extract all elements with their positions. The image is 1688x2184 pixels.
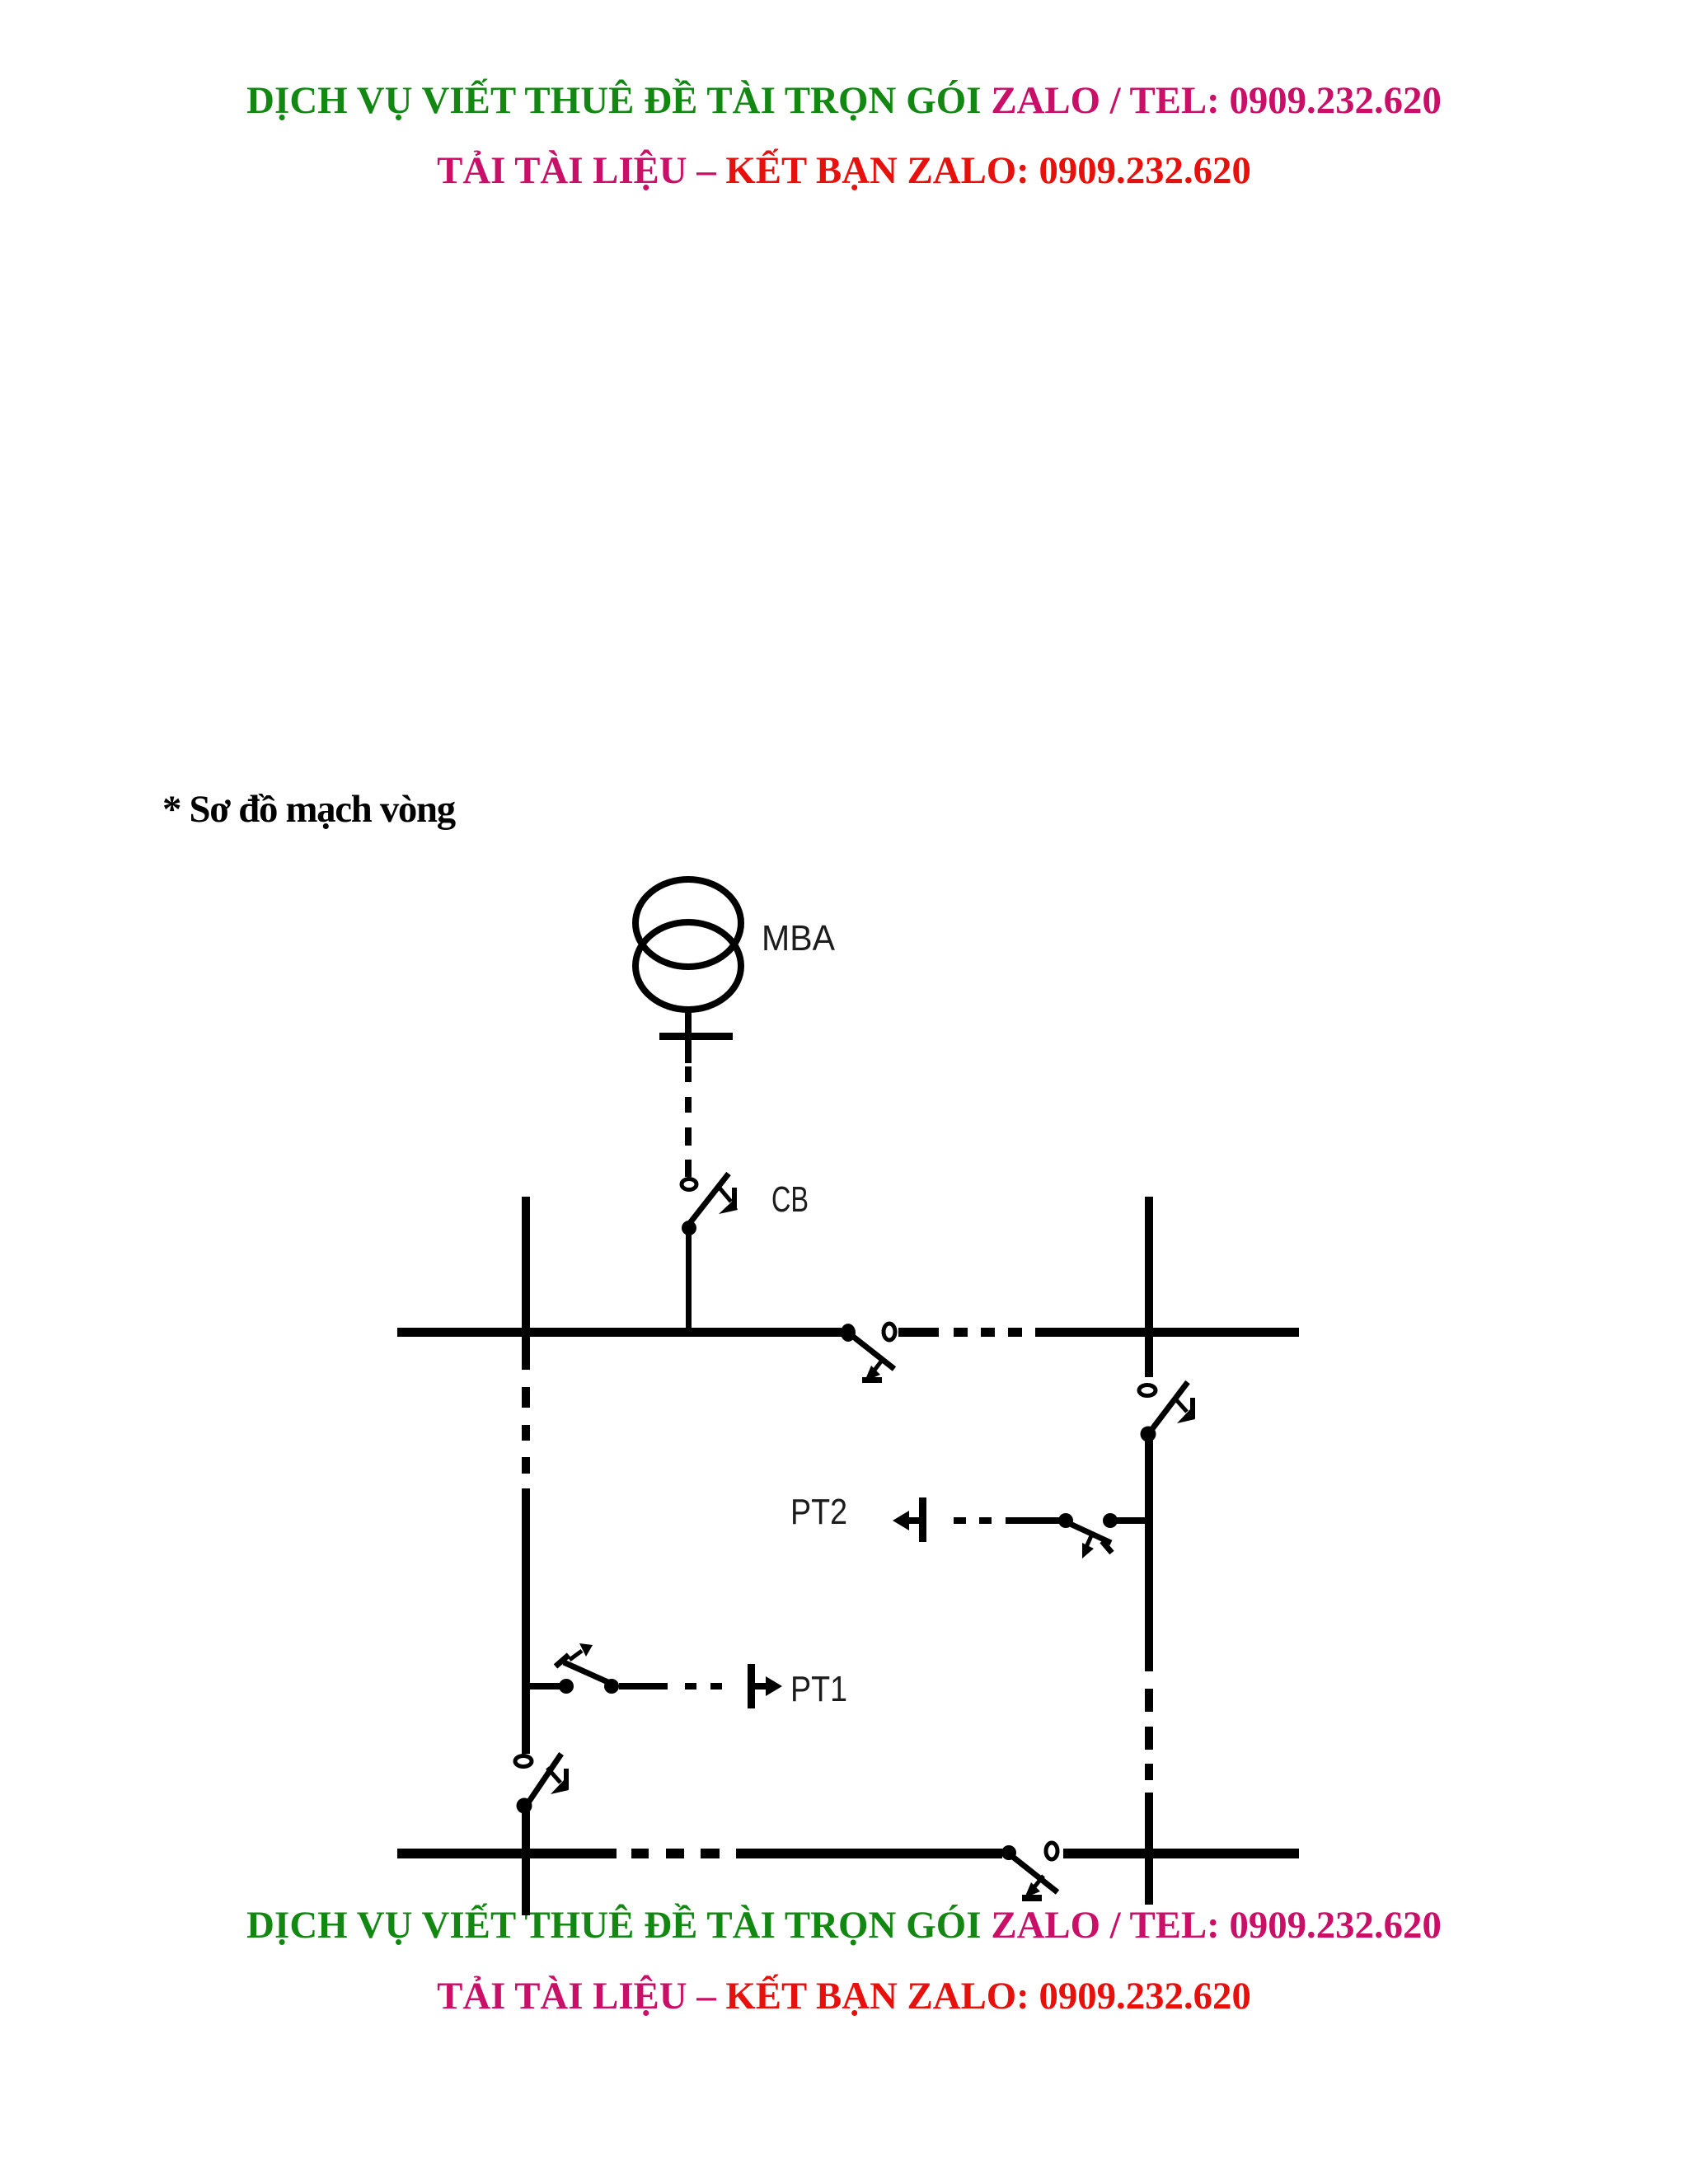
- switch S2 arrow: [1174, 1397, 1195, 1423]
- switch S4 blade: [564, 1662, 612, 1684]
- switch S4 contact left: [559, 1679, 574, 1694]
- bottom busbar right segment: [1063, 1849, 1299, 1858]
- switch S6 arrow: [1022, 1876, 1043, 1901]
- switch S2 fixed contact ring: [1139, 1385, 1156, 1396]
- terminal PT1 arrow: [748, 1664, 782, 1708]
- wire PT2 solid: [1006, 1517, 1059, 1524]
- switch S2 hinge contact: [1141, 1427, 1156, 1442]
- left feeder dashed segment: [522, 1387, 530, 1474]
- node PT1 tap wire: [530, 1683, 560, 1690]
- switch S1 arrow: [862, 1358, 884, 1383]
- top busbar stub right of S1: [898, 1328, 939, 1337]
- switch S5 hinge contact: [517, 1798, 532, 1814]
- right feeder middle segment: [1145, 1440, 1153, 1671]
- switch S3 arrow: [1082, 1532, 1112, 1558]
- right feeder lower segment: [1145, 1793, 1153, 1905]
- wire PT1 dashed: [685, 1683, 722, 1690]
- switch S3 blade: [1067, 1522, 1111, 1543]
- bottom busbar middle segment: [736, 1849, 1002, 1858]
- bottom busbar dashed tie: [631, 1849, 720, 1858]
- header line 2: [0, 152, 1688, 190]
- node PT2 tap wire: [1117, 1517, 1150, 1524]
- left feeder middle segment: [522, 1488, 530, 1754]
- right feeder upper segment: [1145, 1197, 1153, 1377]
- switch S1 blade: [848, 1333, 894, 1369]
- switch S4 arrow: [556, 1643, 593, 1666]
- left feeder switch S5 fixed contact ring: [515, 1756, 532, 1767]
- switch S3 contact left: [1058, 1513, 1073, 1528]
- bottom busbar left segment: [397, 1849, 617, 1858]
- breaker CB arrow: [718, 1186, 738, 1214]
- svg-text:PT2: PT2: [790, 1492, 847, 1532]
- svg-text:MBA: MBA: [762, 918, 836, 958]
- switch S1 hinge contact: [841, 1324, 856, 1342]
- transformer MBA winding 1: [635, 879, 741, 967]
- section heading: [162, 790, 455, 829]
- top busbar right segment: [1035, 1328, 1299, 1337]
- breaker CB blade: [687, 1174, 729, 1227]
- switch S5 arrow: [547, 1768, 569, 1794]
- wire CB to top busbar: [686, 1235, 692, 1330]
- top busbar dashed tie: [954, 1328, 1022, 1337]
- footer line 1: [0, 1906, 1688, 1945]
- footer line 2: [0, 1977, 1688, 2016]
- switch S4 contact right: [604, 1679, 619, 1694]
- svg-text:PT1: PT1: [790, 1669, 847, 1709]
- wire transformer stem: [685, 1010, 692, 1063]
- switch S6 blade: [1010, 1854, 1057, 1892]
- breaker CB bottom contact: [682, 1221, 696, 1235]
- wire PT2 dashed: [954, 1517, 992, 1524]
- switch S6 fixed contact ring: [1046, 1843, 1057, 1859]
- header line 1: [0, 82, 1688, 120]
- svg-text:CB: CB: [771, 1179, 809, 1220]
- switch S1 fixed contact ring: [884, 1324, 895, 1340]
- top busbar left segment: [397, 1328, 842, 1337]
- switch S5 blade: [525, 1754, 561, 1807]
- breaker CB top contact ring: [682, 1179, 696, 1190]
- wire dashed MBA to CB: [685, 1066, 692, 1177]
- switch S2 blade: [1146, 1382, 1188, 1436]
- switch S3 contact right: [1103, 1513, 1118, 1528]
- left feeder upper segment: [522, 1197, 530, 1370]
- transformer MBA winding 2: [635, 922, 741, 1010]
- left feeder lower segment: [522, 1811, 530, 1915]
- terminal PT2 arrow: [893, 1497, 926, 1542]
- transformer neutral crossbar: [659, 1033, 733, 1040]
- switch S6 hinge contact: [1001, 1845, 1016, 1860]
- wire PT1 solid: [619, 1683, 668, 1690]
- right feeder dashed segment: [1145, 1689, 1153, 1780]
